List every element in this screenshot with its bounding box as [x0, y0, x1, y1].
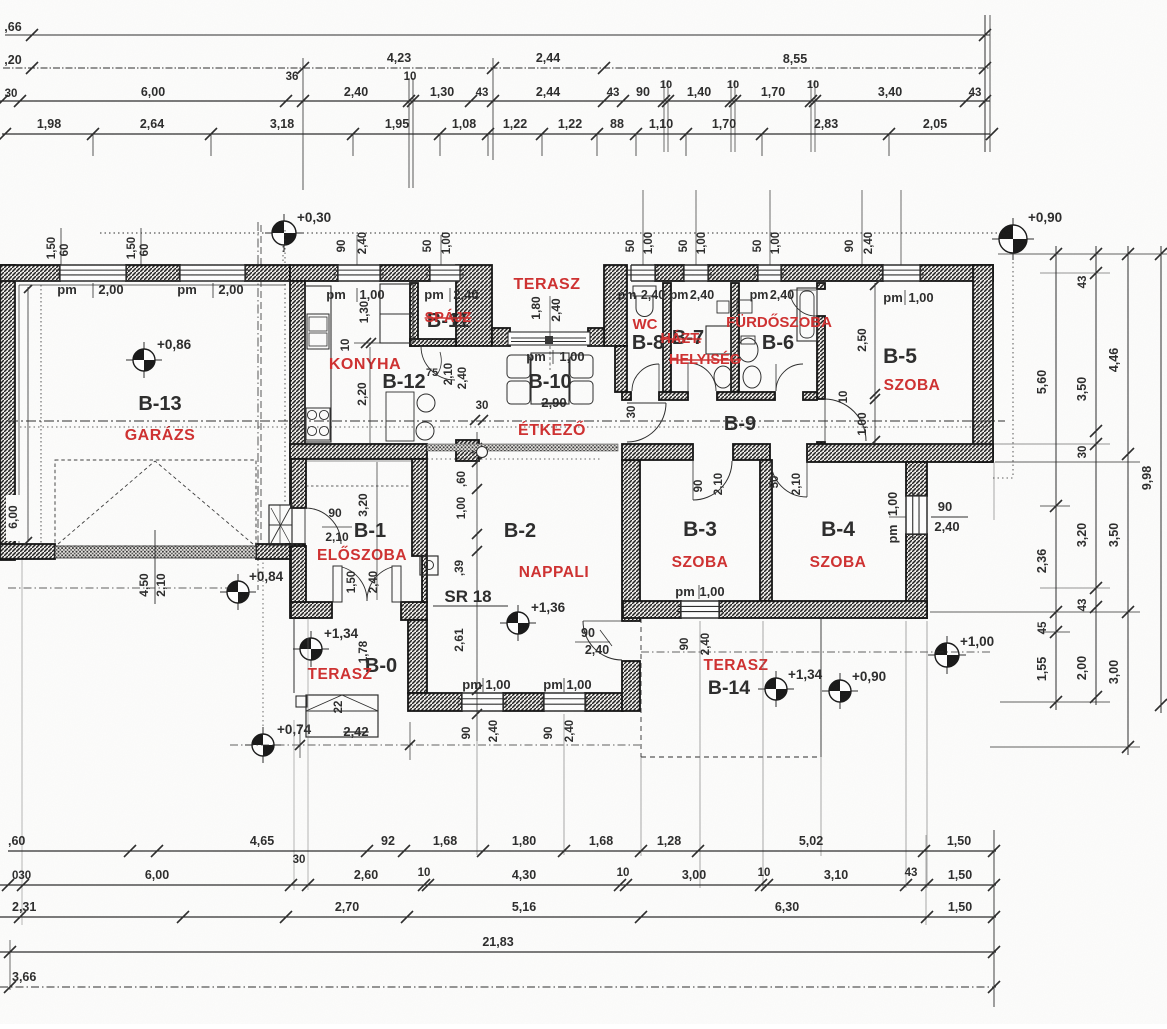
garage east wall / B-1 west wall upper: [290, 281, 305, 504]
B-0 entrance steps: [306, 695, 378, 737]
B-1 south-east corner stub: [401, 602, 427, 620]
eaves dashed right: [1012, 253, 1014, 478]
right dimension chain V4: [1160, 246, 1162, 713]
corridor top wall seg 2: [717, 392, 775, 400]
south wall living seg 2: [503, 693, 544, 711]
B-1 built-in closet along north wall: [306, 485, 412, 487]
interior outline lines: [15, 280, 290, 282]
north wall garage pier: [126, 265, 180, 281]
terrace door from living B-2: [583, 621, 622, 660]
kitchen south wall: [290, 444, 427, 459]
B-6 / B-5 wall seg top: [817, 283, 825, 289]
B-14 dashed outline: [640, 618, 642, 757]
section line vertical through garage: [257, 222, 259, 590]
window B-3 south (pm 1,00): [681, 601, 719, 618]
top chain extension verticals: [302, 58, 304, 190]
door B-6 to B-5: [790, 290, 816, 316]
kitchen stove: [306, 408, 330, 440]
B-1 south wall segment: [291, 602, 332, 618]
window B-7 (pm 2,40): [684, 265, 708, 281]
corridor south wall seg 2: [733, 444, 770, 460]
south wall living seg 3: [585, 693, 623, 711]
short tick extensions below chain D: [92, 134, 94, 156]
corridor top wall seg 3: [803, 392, 817, 400]
right dimension chain V2: [1095, 246, 1097, 705]
level marker +1,34: [293, 648, 329, 650]
B-1 / B-2 wall thin part: [422, 556, 427, 602]
B-1 west wall upper: [291, 459, 306, 508]
SR 18 chimney: [420, 556, 438, 575]
B-4 east wall upper: [906, 462, 927, 496]
window garage 2 (pm 2,00): [180, 265, 245, 281]
pantry door: [421, 346, 455, 380]
B-3/B-4 south wall east seg: [719, 601, 927, 618]
kitchen counter: [305, 286, 331, 442]
south wall living seg 1: [408, 693, 462, 711]
north wall segment NE corner: [920, 265, 993, 281]
B-2 / B-3 wall upper: [622, 460, 640, 621]
north wall seg B8-B7: [655, 265, 684, 281]
pier between dining and living: [456, 440, 479, 461]
bottom chain G: [0, 916, 996, 918]
level marker +1,34: [758, 688, 794, 690]
door corridor to B-5: [825, 399, 866, 441]
window living 1 (pm 1,00): [462, 693, 503, 711]
hall west wall (B-9): [615, 346, 627, 392]
window extension lines to top chains: [60, 228, 62, 265]
north wall seg B7-B6: [708, 265, 758, 281]
right dimension chain V3: [1127, 246, 1129, 755]
WC fixtures: [633, 286, 656, 296]
north wall kitchen segment: [290, 265, 338, 281]
door B-4: [771, 461, 807, 497]
top dimension chain C: [0, 100, 990, 102]
east exterior wall B-5: [973, 265, 993, 462]
level marker +1,36: [500, 622, 536, 624]
dining-living step speckled band: [427, 444, 618, 451]
pantry south wall: [410, 339, 456, 346]
level marker +0,30: [265, 232, 303, 234]
window kitchen (pm 1,00): [338, 265, 380, 281]
B-1 / B-2 wall: [412, 459, 427, 556]
window living 2 (pm 1,00): [544, 693, 585, 711]
B-6 / B-5 wall seg mid: [817, 316, 825, 399]
pantry west wall: [410, 283, 418, 346]
north wall seg B6-B5: [781, 265, 883, 281]
B-0 west wall: [290, 558, 305, 618]
window B-8 (pm 2,40): [631, 265, 655, 281]
door B-1 to B-0 double (1,50/2,40): [333, 566, 342, 602]
window B-6 (pm 2,40): [758, 265, 781, 281]
terrace door right jamb: [588, 328, 604, 346]
top dimension chain A (total ,66): [5, 34, 990, 36]
door B-7: [688, 363, 716, 391]
level line +0,30 / +0,90: [100, 232, 1010, 234]
bottom chain F: [0, 884, 996, 886]
window B-5 north (pm 1,00): [883, 265, 920, 281]
B-4 east wall lower: [906, 534, 927, 618]
kitchen sink: [307, 314, 329, 349]
door B-3: [693, 461, 732, 500]
corridor top wall seg 1: [659, 392, 688, 400]
level marker +0,90: [992, 238, 1034, 240]
terrace sliding door: [508, 332, 590, 345]
B-6 / B-5 wall seg bottom: [817, 442, 825, 444]
door WC B-8: [632, 364, 659, 391]
B-7 / B-6 wall: [731, 283, 739, 392]
door B-6 from corridor: [776, 364, 803, 391]
bottom chain E: [8, 850, 996, 852]
horizontal section line: [8, 420, 1005, 422]
B-3 south wall west seg: [623, 601, 681, 618]
garage south wall east of door: [256, 544, 290, 559]
level marker +0,86: [126, 359, 162, 361]
garage south wall west of door: [0, 544, 55, 559]
wall below entry door: [286, 544, 305, 558]
level marker +0,84: [220, 591, 256, 593]
north wall garage segment 1: [0, 265, 60, 281]
window garage 1 (pm 2,00): [60, 265, 126, 281]
B-1 west wall lower: [291, 546, 306, 618]
window B-4 east (pm 1,00): [906, 496, 927, 534]
B-2 interior dim line: [476, 432, 478, 741]
west exterior wall of garage: [0, 265, 15, 560]
north wall pantry segment: [380, 265, 430, 281]
bottom extension lines: [476, 714, 478, 855]
B-8 / B-7 wall: [663, 283, 671, 392]
B-7 fixtures: [706, 326, 731, 354]
corridor top wall seg 0: [622, 392, 631, 400]
door garage to B-1 (90/2,10): [305, 508, 341, 544]
B-12 wardrobe: [380, 284, 413, 343]
B-12 table and chairs: [386, 392, 414, 441]
level marker +1,00: [928, 654, 966, 656]
top dimension chain B: [3, 67, 990, 69]
right side connector lines: [998, 253, 1167, 255]
garage sectional door dashed: [55, 460, 256, 546]
bottom chain H total 21,83: [0, 951, 996, 953]
level marker +0,90: [822, 690, 858, 692]
corridor south wall seg 1: [622, 444, 693, 460]
garage door dim: [154, 530, 156, 604]
B-10 table: [531, 353, 569, 404]
column at pier end: [477, 447, 488, 458]
entry door frame symbol: [269, 505, 292, 545]
bottom chain I: [0, 986, 996, 988]
B-3 / B-4 wall: [760, 460, 772, 601]
garage interior dim line: [27, 287, 29, 542]
B-2 / B-3 wall lower: [622, 661, 640, 711]
terrace right pier: [604, 265, 627, 346]
level marker +0,74: [245, 744, 281, 746]
living room west exterior wall: [408, 620, 427, 693]
terrace left pier: [456, 265, 492, 346]
B-5 south wall / corridor east: [807, 444, 993, 462]
north wall garage segment 2: [245, 265, 290, 281]
terrace door left jamb: [492, 328, 510, 346]
door dining to corridor B-9: [627, 403, 666, 442]
top dimension chain D: [2, 133, 990, 135]
B-6 fixtures: [738, 338, 758, 362]
window pantry (pm 2,40): [430, 265, 460, 281]
garage door threshold band: [55, 546, 256, 558]
right dimension chain V1: [1055, 246, 1057, 710]
